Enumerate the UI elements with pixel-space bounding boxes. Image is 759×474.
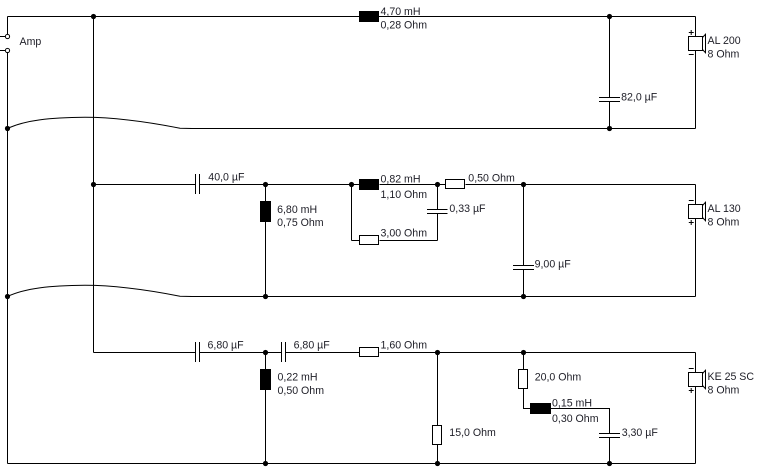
amp plus terminal circle xyxy=(5,34,9,38)
svg-text:0,50 Ohm: 0,50 Ohm xyxy=(468,172,515,184)
resistor R3 1.60 Ohm body xyxy=(359,347,379,357)
junction node mid return / 9uF xyxy=(521,294,526,299)
capacitor C3 0.33uF plates xyxy=(427,210,448,214)
inductor L5 0.15mH body xyxy=(530,403,551,414)
svg-text:8 Ohm: 8 Ohm xyxy=(708,217,740,229)
svg-text:0,22 mH: 0,22 mH xyxy=(278,372,318,384)
wire woofer return rail xyxy=(190,128,696,130)
wire mid branch segment 4 xyxy=(466,184,696,186)
speaker AL 200 body xyxy=(688,36,703,51)
svg-text:3,00 Ohm: 3,00 Ohm xyxy=(381,228,428,240)
wire 15 Ohm branch xyxy=(437,353,439,464)
junction node mid return / 6.8mH xyxy=(263,294,268,299)
svg-text:9,00 µF: 9,00 µF xyxy=(535,258,572,270)
wire tweeter branch segment 4 xyxy=(380,352,696,354)
capacitor C1 82uF plates xyxy=(599,98,620,102)
wire tweeter branch segment 2 xyxy=(200,352,282,354)
junction node bottom rail / 15 Ohm xyxy=(435,461,440,466)
resistor R5 20.0 Ohm body xyxy=(518,369,528,389)
wire amp plus terminal tick xyxy=(0,36,5,38)
wire bottom rail (tweeter return) xyxy=(8,463,696,465)
wire 6.8mH branch xyxy=(265,185,267,297)
svg-text:0,75 Ohm: 0,75 Ohm xyxy=(277,217,324,229)
wire mid branch segment 3 xyxy=(380,184,446,186)
junction node woofer return / amp- xyxy=(5,126,10,131)
wire 20 Ohm feed xyxy=(523,353,525,370)
wire 3.3uF lower xyxy=(609,438,611,464)
wire 82uF upper xyxy=(609,17,611,98)
speaker AL 130 minus mark xyxy=(689,200,694,202)
capacitor C4 9uF plates xyxy=(513,266,534,270)
wire tweeter speaker return xyxy=(695,387,697,464)
svg-text:0,33 µF: 0,33 µF xyxy=(449,203,486,215)
wire woofer return arc xyxy=(8,117,193,128)
inductor L1 4.70mH body xyxy=(359,11,379,22)
svg-text:0,30 Ohm: 0,30 Ohm xyxy=(552,413,599,425)
resistor R4 15.0 Ohm body xyxy=(432,425,442,445)
wire notch left leg xyxy=(351,185,353,241)
wire amp minus terminal tick xyxy=(0,50,5,52)
wire mid speaker feed xyxy=(695,185,697,205)
junction node mid return / amp- xyxy=(5,294,10,299)
svg-text:6,80 µF: 6,80 µF xyxy=(208,340,245,352)
junction node tweeter / 15 Ohm xyxy=(435,350,440,355)
svg-text:6,80 mH: 6,80 mH xyxy=(277,204,317,216)
svg-text:1,10 Ohm: 1,10 Ohm xyxy=(381,189,428,201)
svg-text:40,0 µF: 40,0 µF xyxy=(208,172,245,184)
svg-text:1,60 Ohm: 1,60 Ohm xyxy=(381,340,428,352)
wire tweeter branch segment 1 xyxy=(94,352,196,354)
svg-text:15,0 Ohm: 15,0 Ohm xyxy=(449,427,496,439)
wire woofer speaker feed xyxy=(695,17,697,37)
svg-text:AL 130: AL 130 xyxy=(708,203,741,215)
speaker KE 25 SC body xyxy=(688,372,703,387)
wire notch bottom left xyxy=(352,240,360,242)
speaker AL 200 minus mark xyxy=(689,54,694,56)
svg-text:AL 200: AL 200 xyxy=(708,35,741,47)
junction node mid / 6.8mH xyxy=(263,182,268,187)
junction node notch right xyxy=(435,182,440,187)
inductor L3 0.82mH body xyxy=(359,179,379,190)
speaker AL 200 cone xyxy=(703,34,706,52)
wire mid branch segment 2 xyxy=(200,184,360,186)
junction node bus+ / mid branch xyxy=(91,182,96,187)
junction node notch left xyxy=(349,182,354,187)
svg-text:82,0 µF: 82,0 µF xyxy=(621,91,658,103)
svg-text:6,80 µF: 6,80 µF xyxy=(294,340,331,352)
capacitor C7 3.3uF plates xyxy=(599,434,620,438)
junction node woofer return / 82uF xyxy=(607,126,612,131)
wire 20 Ohm to 0.15mH xyxy=(524,389,531,409)
svg-text:4,70 mH: 4,70 mH xyxy=(381,6,421,18)
speaker KE 25 SC cone xyxy=(703,370,706,388)
wire tweeter branch segment 3 xyxy=(286,352,360,354)
wire mid speaker return xyxy=(695,219,697,297)
svg-text:0,15 mH: 0,15 mH xyxy=(552,397,592,409)
wire mid return arc xyxy=(8,285,193,296)
junction node top rail / 82uF xyxy=(607,14,612,19)
wire amp minus bus (left vertical) xyxy=(7,52,9,463)
svg-text:0,50 Ohm: 0,50 Ohm xyxy=(278,385,325,397)
inductor L2 6.80mH body xyxy=(260,201,271,222)
wire notch right leg upper xyxy=(437,185,439,210)
wire bus+ vertical x=93.5 xyxy=(93,17,95,353)
capacitor C6 6.8uF plates xyxy=(282,342,286,362)
svg-text:8 Ohm: 8 Ohm xyxy=(708,385,740,397)
wire 0.22mH branch xyxy=(265,353,267,464)
junction node bottom rail / 0.22mH xyxy=(263,461,268,466)
svg-text:Amp: Amp xyxy=(20,36,42,48)
wire notch bottom right xyxy=(380,240,438,242)
resistor R2 0.50 Ohm body xyxy=(445,179,465,189)
speaker AL 130 cone xyxy=(703,202,706,220)
junction node tweeter / RLC chain xyxy=(521,350,526,355)
svg-text:3,30 µF: 3,30 µF xyxy=(622,427,659,439)
wire notch right leg lower xyxy=(437,214,439,241)
svg-text:20,0 Ohm: 20,0 Ohm xyxy=(535,372,582,384)
inductor L4 0.22mH body xyxy=(260,369,271,390)
junction node top rail / bus+ xyxy=(91,14,96,19)
wire mid return rail xyxy=(190,296,696,298)
capacitor C2 40uF plates xyxy=(196,174,200,194)
junction node bottom rail / 3.3uF xyxy=(607,461,612,466)
speaker KE 25 SC minus mark xyxy=(689,368,694,370)
capacitor C5 6.8uF plates xyxy=(196,342,200,362)
speaker KE 25 SC plus mark xyxy=(689,388,694,393)
speaker AL 130 body xyxy=(688,204,703,219)
wire amp plus stub xyxy=(7,17,9,34)
amp minus terminal circle xyxy=(5,48,9,52)
resistor R1 3.00 Ohm body xyxy=(359,235,379,245)
junction node tweeter / 0.22mH xyxy=(263,350,268,355)
wire tweeter speaker feed xyxy=(695,353,697,373)
wire top rail (amp+ to woofer) xyxy=(8,16,696,18)
svg-text:8 Ohm: 8 Ohm xyxy=(708,49,740,61)
wire mid branch segment 1 xyxy=(94,184,196,186)
speaker AL 200 plus mark xyxy=(689,30,694,35)
wire woofer speaker return xyxy=(695,51,697,129)
svg-text:0,28 Ohm: 0,28 Ohm xyxy=(381,20,428,32)
svg-text:0,82 mH: 0,82 mH xyxy=(381,174,421,186)
wire 82uF lower xyxy=(609,102,611,129)
speaker AL 130 plus mark xyxy=(689,220,694,225)
wire 0.15mH to 3.3uF xyxy=(551,409,610,434)
wire 9uF upper xyxy=(523,185,525,266)
svg-text:KE 25 SC: KE 25 SC xyxy=(708,371,755,383)
wire 9uF lower xyxy=(523,270,525,297)
junction node mid / 9uF xyxy=(521,182,526,187)
